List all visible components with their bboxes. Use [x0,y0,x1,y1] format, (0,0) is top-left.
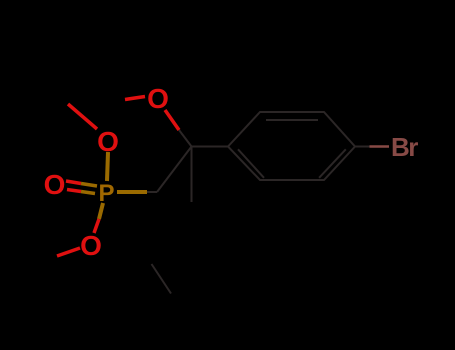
wire P to C2 bond [117,190,147,194]
svg-text:O: O [44,169,66,200]
wire P=O3 double bond upper line [66,181,81,184]
wire C1 to methyl CH3d vertical bond [191,147,193,203]
wire methyl CH3a to O2 bond [68,104,97,129]
svg-text:O: O [80,230,102,261]
benzene ring of 4-bromophenyl [228,112,355,180]
wire O1 to C1 bond (gray half) [179,130,192,147]
wire C1 to benzene ring bond [192,146,229,148]
benzene inner double bond lower-left [238,149,264,178]
svg-text:Br: Br [391,132,418,162]
benzene inner double bond lower-right [319,149,346,178]
benzene inner double bond top [266,119,318,121]
wire O4 to methyl CH3c bond [57,248,80,256]
wire faint lower chain segment [152,264,172,294]
wire methyl CH3b to O1 bond [125,97,145,100]
svg-text:O: O [147,83,169,114]
wire O1 to C1 bond (red half) [165,110,179,130]
svg-text:P: P [98,180,114,207]
wire C2 to C1 bond [157,147,192,193]
wire ring to Br bond [355,146,370,148]
svg-text:O: O [97,126,119,157]
wire P to O4 bond [99,203,103,219]
wire P=O3 double bond lower line [67,190,81,192]
wire O2 to P bond [107,152,108,181]
